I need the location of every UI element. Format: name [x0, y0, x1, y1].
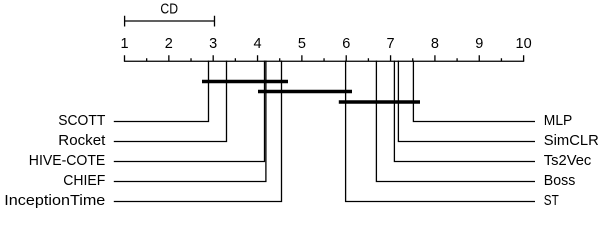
- svg-text:2: 2: [165, 36, 173, 52]
- svg-text:Boss: Boss: [544, 173, 576, 189]
- svg-text:8: 8: [431, 36, 439, 52]
- svg-text:SCOTT: SCOTT: [58, 113, 105, 129]
- svg-text:CHIEF: CHIEF: [63, 173, 105, 189]
- svg-text:Ts2Vec: Ts2Vec: [544, 153, 592, 169]
- svg-text:SimCLR: SimCLR: [544, 133, 599, 149]
- svg-text:Rocket: Rocket: [58, 133, 105, 149]
- svg-text:MLP: MLP: [544, 113, 573, 129]
- svg-text:5: 5: [298, 36, 306, 52]
- svg-text:1: 1: [120, 36, 128, 52]
- svg-text:7: 7: [387, 36, 395, 52]
- svg-text:10: 10: [516, 36, 532, 52]
- svg-text:ST: ST: [544, 193, 559, 209]
- svg-text:9: 9: [475, 36, 483, 52]
- svg-text:3: 3: [209, 36, 217, 52]
- svg-text:CD: CD: [160, 2, 178, 18]
- svg-text:4: 4: [254, 36, 262, 52]
- svg-text:6: 6: [342, 36, 350, 52]
- svg-text:InceptionTime: InceptionTime: [4, 193, 105, 209]
- svg-text:HIVE-COTE: HIVE-COTE: [29, 153, 106, 169]
